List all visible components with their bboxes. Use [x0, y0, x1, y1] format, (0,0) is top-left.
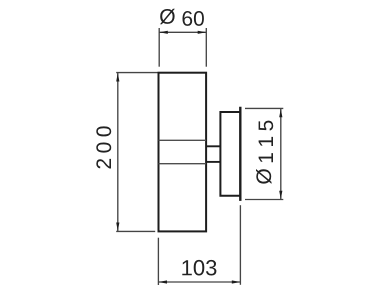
mount plate outline: [220, 112, 240, 196]
dim d115 line: [280, 108, 282, 199]
dim d115 extension bottom: [245, 199, 283, 201]
dim d60 arrow left: [159, 31, 168, 34]
arm bottom line: [206, 161, 220, 163]
dim d60 line: [159, 31, 206, 33]
dim 200 extension top: [116, 72, 157, 74]
back disc edge: [239, 107, 241, 201]
dim 103 extension left: [157, 238, 159, 285]
dim d60 label: [160, 9, 204, 26]
dim 103 extension right: [239, 205, 241, 285]
dim 200 line: [117, 73, 119, 232]
dim 200 arrow top: [116, 73, 119, 82]
dim d115 label: [256, 121, 273, 184]
dim 200 arrow bottom: [116, 223, 119, 232]
arm top line: [206, 145, 220, 147]
dim 103 arrow right: [232, 280, 241, 283]
lamp body (cylinder outline): [159, 73, 207, 232]
dim d115 arrow top: [279, 109, 282, 118]
dim d60 extension left: [158, 28, 160, 67]
dim d115 extension top: [245, 107, 283, 109]
dim 103 arrow left: [158, 280, 167, 283]
body band lower line: [159, 163, 207, 165]
dim d115 arrow bottom: [279, 191, 282, 200]
dim 103 line: [158, 281, 240, 283]
body band upper line: [159, 139, 207, 141]
dim 200 label: [96, 126, 111, 168]
dim d60 extension right: [205, 28, 207, 67]
dim d60 arrow right: [198, 31, 207, 34]
dim 200 extension bottom: [116, 230, 155, 232]
dim 103 label: [182, 260, 216, 276]
